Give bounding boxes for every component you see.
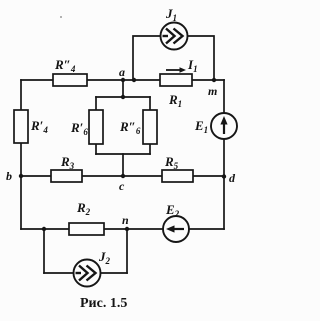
- wire parallel group top rail: [96, 96, 150, 98]
- resistor R''6: [119, 110, 157, 144]
- speck artifact: [60, 16, 62, 18]
- junction J2 branch: [42, 227, 46, 231]
- current arrow I1: [166, 57, 198, 74]
- svg-text:E2: E2: [165, 202, 180, 219]
- wire parallel group left branch: [95, 97, 97, 154]
- svg-text:a: a: [119, 65, 125, 79]
- wire middle line b-c-d: [21, 175, 224, 177]
- node m: [208, 78, 217, 98]
- resistor R1: [160, 74, 192, 109]
- wire top line b corner to right corner through a and m: [21, 79, 224, 81]
- wire parallel group right branch: [149, 97, 151, 154]
- wire left vertical b to bottom line: [20, 176, 22, 229]
- svg-text:I1: I1: [187, 57, 198, 74]
- voltage source E1: [194, 113, 237, 139]
- resistor R''4: [53, 57, 87, 86]
- svg-text:R1: R1: [168, 92, 182, 109]
- node d: [222, 171, 236, 185]
- svg-text:R″4: R″4: [54, 57, 76, 74]
- wire J1 loop: [133, 36, 214, 80]
- node n: [122, 213, 129, 231]
- svg-text:R5: R5: [164, 154, 179, 171]
- junction parallel group top: [121, 95, 125, 99]
- voltage source E2: [163, 202, 189, 242]
- wire J2 branch right rise to n: [126, 229, 128, 273]
- svg-text:R′6: R′6: [70, 120, 88, 137]
- svg-text:d: d: [229, 171, 236, 185]
- wire J2 bottom run: [44, 272, 127, 274]
- node a: [119, 65, 125, 82]
- svg-text:E1: E1: [194, 118, 208, 135]
- resistor R'4: [14, 110, 48, 143]
- svg-text:Рис. 1.5: Рис. 1.5: [80, 296, 127, 311]
- svg-text:J2: J2: [98, 249, 111, 266]
- svg-text:R′4: R′4: [30, 118, 48, 135]
- wire parallel group bottom rail: [96, 153, 150, 155]
- wire left vertical b branch: [20, 80, 22, 176]
- wire bottom line through R2, n, E2: [21, 228, 224, 230]
- wire parallel group to node c: [122, 154, 124, 176]
- resistor R2: [69, 200, 104, 235]
- node b: [6, 169, 23, 183]
- svg-text:c: c: [119, 179, 125, 193]
- wire a to parallel group top: [122, 80, 124, 97]
- current source J2: [74, 249, 111, 287]
- resistor R5: [162, 154, 193, 182]
- svg-text:n: n: [122, 213, 129, 227]
- svg-text:R3: R3: [60, 154, 75, 171]
- svg-text:m: m: [208, 84, 217, 98]
- svg-text:b: b: [6, 169, 12, 183]
- caption: [80, 296, 127, 311]
- current source J1: [161, 6, 188, 50]
- wire right vertical m-d-bottom: [223, 80, 225, 229]
- svg-text:R″6: R″6: [119, 119, 141, 136]
- resistor R'6: [70, 110, 103, 144]
- svg-text:R2: R2: [76, 200, 91, 217]
- junction J1 left drop: [132, 78, 136, 82]
- wire J2 branch left drop: [43, 229, 45, 273]
- node c: [119, 174, 125, 193]
- resistor R3: [51, 154, 82, 182]
- svg-text:J1: J1: [165, 6, 177, 23]
